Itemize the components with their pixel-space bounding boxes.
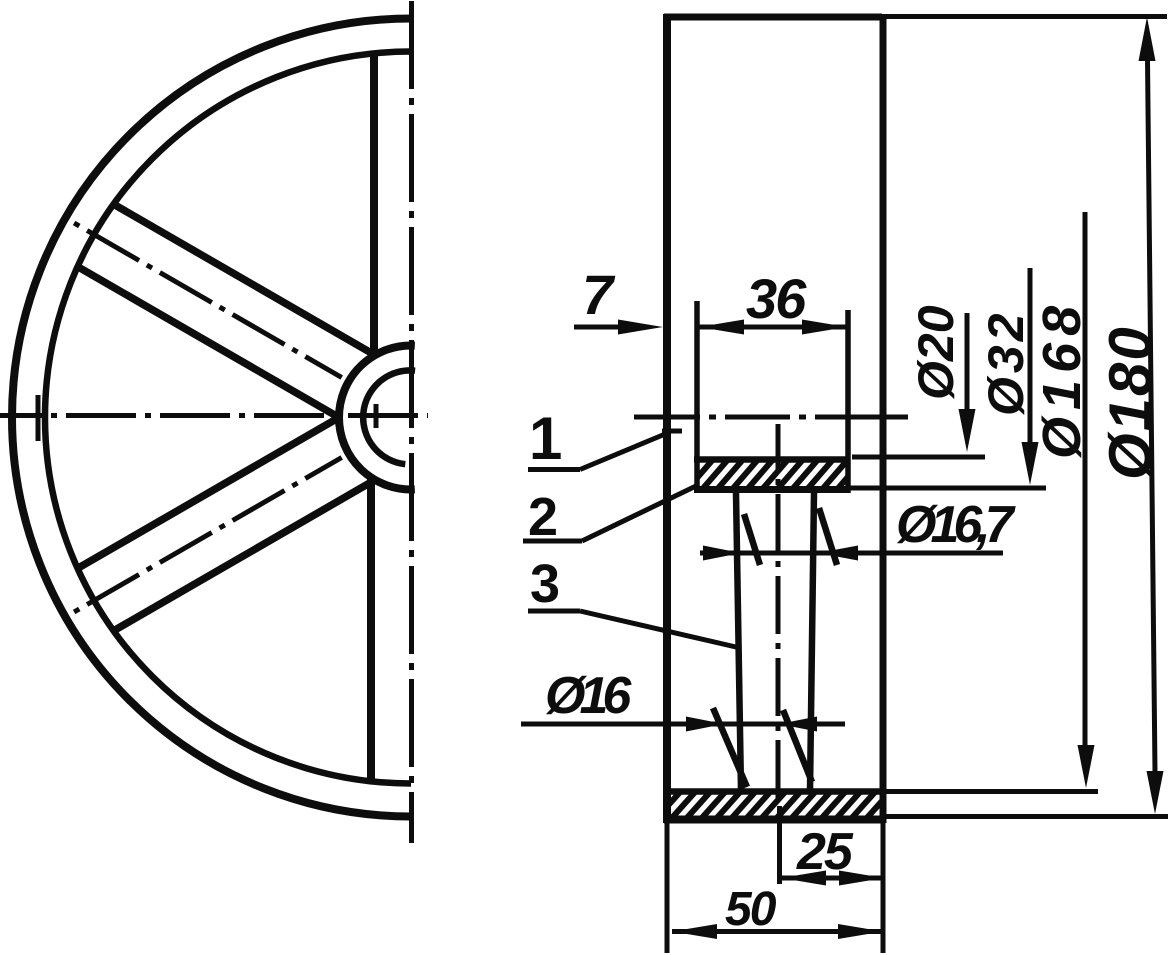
svg-text:36: 36 <box>746 267 807 330</box>
svg-text:Ø20: Ø20 <box>908 305 964 400</box>
svg-text:2: 2 <box>528 487 558 547</box>
svg-text:25: 25 <box>796 823 854 881</box>
svg-text:50: 50 <box>725 883 777 936</box>
svg-text:1: 1 <box>529 405 562 472</box>
svg-text:Ø168: Ø168 <box>1032 299 1092 459</box>
svg-text:Ø16: Ø16 <box>545 667 632 725</box>
svg-text:Ø32: Ø32 <box>978 309 1034 416</box>
svg-text:3: 3 <box>530 554 560 614</box>
svg-text:7: 7 <box>582 263 616 326</box>
svg-text:Ø180: Ø180 <box>1097 325 1164 480</box>
svg-text:Ø16,7: Ø16,7 <box>896 496 1016 554</box>
